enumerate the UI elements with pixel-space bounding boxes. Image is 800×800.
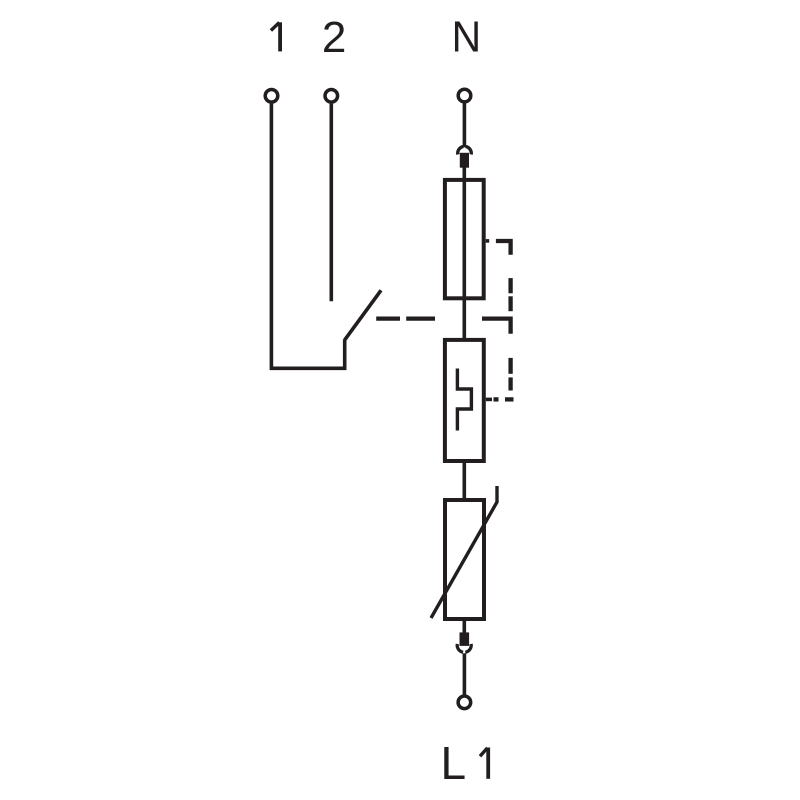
svg-text:2: 2 [322, 13, 346, 62]
svg-text:L: L [441, 737, 467, 789]
svg-text:N: N [452, 13, 482, 62]
